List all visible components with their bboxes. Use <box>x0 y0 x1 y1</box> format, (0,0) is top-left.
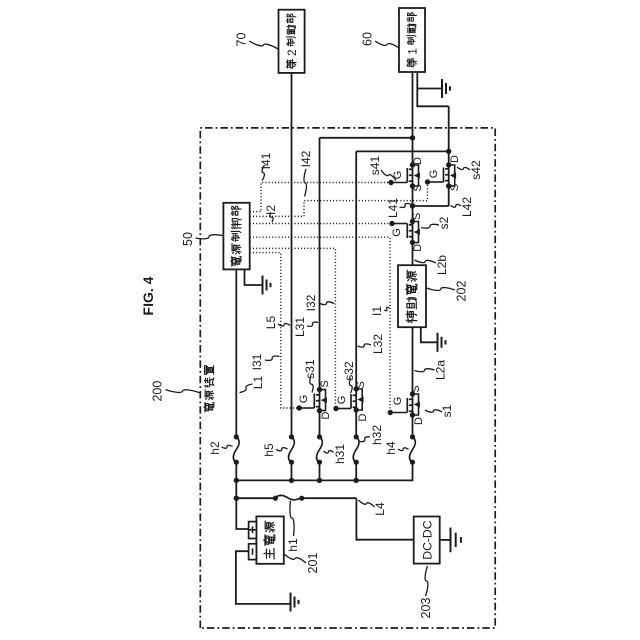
svg-text:s41: s41 <box>368 156 382 176</box>
svg-text:DC-DC: DC-DC <box>421 520 435 559</box>
block 電源制御部 (50) <box>223 203 249 270</box>
leader L4 <box>359 500 375 507</box>
junction node L31 branch / drain wire <box>410 135 415 140</box>
svg-text:L32: L32 <box>371 334 385 354</box>
leader 200 <box>166 390 200 393</box>
wire L32 row <box>355 462 357 480</box>
leader h2 <box>222 445 233 448</box>
svg-text:s1: s1 <box>440 404 454 417</box>
block 第1制動部 (60) <box>399 8 425 72</box>
svg-text:I32: I32 <box>304 294 318 311</box>
svg-text:D: D <box>413 417 425 425</box>
wire second terminal of 第1制動部 <box>417 72 448 106</box>
svg-text:L1: L1 <box>251 376 265 390</box>
leader 60 <box>375 41 399 48</box>
ground of 電源制御部 <box>263 276 271 295</box>
junction node s42 source branch on main row <box>410 203 415 208</box>
wire L5 row to 第2制動部 <box>291 462 293 480</box>
leader 70 <box>249 41 278 49</box>
ground of 補助電源 <box>438 333 446 352</box>
wire battery minus to ground <box>236 551 291 604</box>
switch h1 (vertical) <box>273 495 305 500</box>
svg-text:G: G <box>428 170 440 179</box>
svg-text:h32: h32 <box>370 425 384 445</box>
leader s42 <box>457 167 470 170</box>
switch h2 <box>233 434 239 465</box>
svg-text:L42: L42 <box>460 197 474 217</box>
switch h32 <box>353 434 359 465</box>
svg-text:h5: h5 <box>262 443 276 457</box>
control line I42 (dotted) <box>250 182 428 216</box>
wire L31 branch down to s41 drain wire <box>320 137 413 139</box>
svg-text:70: 70 <box>235 33 249 47</box>
svg-text:50: 50 <box>181 232 195 246</box>
wire L4 to DC-DC <box>356 498 413 540</box>
svg-text:L2b: L2b <box>435 255 449 275</box>
leader 203 <box>425 566 428 596</box>
svg-text:S: S <box>355 381 367 388</box>
ground at battery minus <box>291 593 299 612</box>
svg-text:G: G <box>336 396 348 405</box>
leader s2 <box>421 224 439 228</box>
control line I2 (dotted) <box>250 223 392 225</box>
svg-text:s2: s2 <box>437 216 451 229</box>
wire main bottom row: h4, s1, 補助電源, s2, s41, to 第1制動部 <box>412 327 414 437</box>
block 第2制動部 (70) <box>279 10 305 73</box>
junction node bus/L32 <box>354 478 359 483</box>
control line I41 (dotted) <box>250 183 391 212</box>
leader 50 <box>196 235 223 239</box>
leader I32 <box>319 302 334 305</box>
svg-text:s42: s42 <box>469 160 483 180</box>
leader s41 <box>381 170 396 181</box>
svg-text:I1: I1 <box>370 306 384 316</box>
svg-text:I42: I42 <box>299 150 313 167</box>
leader L42 <box>451 204 462 207</box>
svg-text:D: D <box>320 411 332 419</box>
junction node on L1 row at bus branch <box>234 478 239 483</box>
block 主電源 (201) <box>256 516 283 563</box>
svg-text:S: S <box>449 184 461 191</box>
transistor s32 <box>333 386 363 412</box>
leader h4 <box>398 448 409 451</box>
switch h31 <box>317 434 323 465</box>
leader s32 <box>349 378 352 393</box>
svg-text:203: 203 <box>419 598 433 619</box>
svg-text:s31: s31 <box>303 359 317 379</box>
block DC-DC (203) <box>414 517 440 564</box>
control line I32 (dotted) <box>250 248 336 408</box>
transistor s1 <box>388 391 420 417</box>
leader s1 <box>425 410 442 412</box>
svg-text:s32: s32 <box>342 361 356 381</box>
svg-text:201: 201 <box>306 553 320 574</box>
svg-text:h31: h31 <box>333 444 347 464</box>
leader s31 <box>310 376 313 393</box>
leader L41 <box>400 203 411 207</box>
svg-text:D: D <box>449 155 461 163</box>
svg-text:G: G <box>391 228 403 237</box>
leader 202 <box>427 288 456 291</box>
svg-text:I41: I41 <box>259 152 273 169</box>
enclosure 電源装置 200 dash-dot border <box>200 128 495 628</box>
leader I41 <box>262 165 265 181</box>
leader L1 <box>240 384 253 393</box>
leader h31 <box>324 450 334 453</box>
block 補助電源 (202) <box>398 265 426 327</box>
leader L2a <box>415 369 435 372</box>
wire L1 row: battery plus node to control unit <box>236 462 248 529</box>
leader L31 <box>307 322 318 326</box>
wire L32 branch down to s42 drain wire <box>356 150 449 152</box>
switch h5 <box>289 434 295 465</box>
wire s42 row <box>448 106 450 206</box>
svg-text:202: 202 <box>455 281 469 302</box>
battery plus terminal <box>249 522 257 539</box>
junction node bus/L31 <box>317 478 322 483</box>
wire s42 source branch <box>413 205 449 207</box>
leader L32 <box>358 344 372 347</box>
leader I1 <box>384 307 390 311</box>
svg-text:L4: L4 <box>373 502 387 516</box>
wire ground branch of 補助電源 <box>421 327 438 342</box>
switch h4 <box>410 434 416 465</box>
transistor s41 <box>388 162 420 188</box>
svg-text:L41: L41 <box>386 198 400 218</box>
battery minus terminal <box>249 544 257 560</box>
ground at 第1制動部 <box>442 79 450 98</box>
junction node bus/L5 <box>289 478 294 483</box>
svg-text:L2a: L2a <box>434 360 448 380</box>
junction node L32 branch / s42 wire <box>446 149 451 154</box>
leader I31 <box>265 356 280 360</box>
svg-text:D: D <box>357 413 369 421</box>
transistor s2 <box>389 219 420 245</box>
svg-text:L31: L31 <box>293 317 307 337</box>
control line I1 (dotted) <box>250 237 391 412</box>
ground below DC-DC <box>451 528 461 553</box>
transistor s42 <box>425 162 456 188</box>
wire ground branch of 電源制御部 <box>245 269 263 285</box>
svg-text:D: D <box>412 157 424 165</box>
svg-text:G: G <box>298 395 310 404</box>
svg-text:h4: h4 <box>384 441 398 455</box>
svg-text:2: 2 <box>285 49 299 56</box>
svg-text:I31: I31 <box>250 353 264 370</box>
svg-text:S: S <box>412 184 424 191</box>
transistor s31 <box>297 387 327 413</box>
svg-text:200: 200 <box>151 381 165 402</box>
svg-text:G: G <box>392 397 404 406</box>
wire ground branch of DC-DC <box>440 539 451 541</box>
wire ground tap near 第1制動部 <box>417 88 442 90</box>
svg-text:S: S <box>410 385 422 392</box>
svg-text:FIG. 4: FIG. 4 <box>140 276 156 315</box>
svg-text:1: 1 <box>406 48 420 55</box>
leader h5 <box>276 448 288 451</box>
leader h1 <box>290 501 294 537</box>
svg-text:L5: L5 <box>264 316 278 330</box>
svg-text:h2: h2 <box>208 441 222 455</box>
label 電源装置 <box>204 402 206 412</box>
leader I42 <box>304 169 307 197</box>
wire h1/L4 branch down from L1 row <box>236 497 275 499</box>
leader L5 <box>278 324 290 327</box>
junction node on L1 row at L4 branch <box>234 496 239 501</box>
svg-text:S: S <box>411 213 423 220</box>
leader 201 <box>284 554 306 563</box>
svg-text:S: S <box>319 380 331 387</box>
svg-text:h1: h1 <box>286 538 300 552</box>
wire bus vertical (left rail) <box>236 462 412 480</box>
leader h32 <box>360 437 371 442</box>
control line I31 (dotted) <box>250 253 300 408</box>
leader I2 <box>270 213 273 223</box>
svg-text:D: D <box>412 244 424 252</box>
wire L31 row <box>319 462 321 480</box>
leader L2b <box>415 260 437 263</box>
svg-text:60: 60 <box>361 32 375 46</box>
